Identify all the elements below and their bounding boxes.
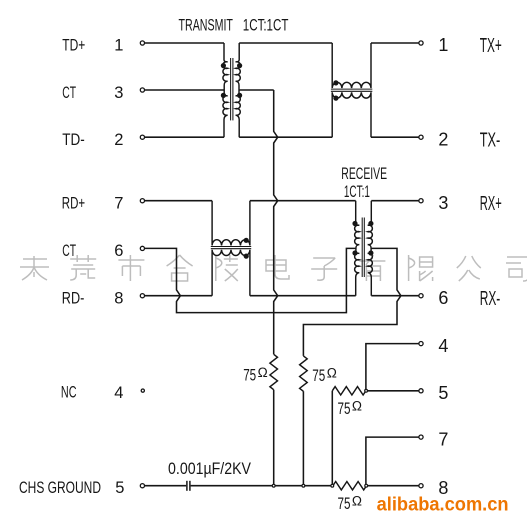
wire capacitor C1 to ground rail nodes [191,485,333,487]
transformer T2 left (primary) winding [355,201,360,296]
grey watermark char 3 [118,255,144,281]
svg-text:1: 1 [438,35,448,55]
T2 polarity dots [352,221,373,256]
wire choke L2 bottom-right to T2 primary bottom (hop over CT rail) [250,295,356,297]
svg-text:RX+: RX+ [480,193,502,215]
svg-text:Ω: Ω [352,494,362,509]
wire resistor R3 left end down to ground rail [331,391,333,486]
svg-text:1CT:1CT: 1CT:1CT [243,16,289,35]
pin 2 left terminal (TD-) [140,135,144,139]
junction R3 leg/R4/ground rail [331,484,334,487]
wire pin4-right down to R3 node [366,344,419,390]
wire pin8-left (RD-) to choke L2 bottom-left (hop over pin6 jog) [145,295,213,297]
junction R1/ground rail [272,484,275,487]
pin 5 left terminal (CHS GROUND) [140,484,144,488]
wire pin2-left to T1 primary bottom [145,136,224,138]
pin 8 right terminal [419,484,423,488]
grey watermark char 11 [506,257,527,281]
wire T2 secondary center tap right and down to resistor R2 top [303,248,401,356]
grey watermark char 1 [20,256,49,280]
pin 1 left terminal (TD+) [140,41,144,45]
svg-text:Ω: Ω [352,399,362,414]
pin 8 left terminal (RD-) [140,294,144,298]
svg-text:5: 5 [115,479,124,497]
wire resistor R1 bottom to ground rail [273,390,275,486]
transformer T1 right (secondary) winding [236,43,241,137]
pin 6 left terminal (CT) [140,246,144,250]
svg-text:1: 1 [114,37,123,55]
svg-text:2: 2 [438,129,448,149]
grey watermark char 2 [70,255,96,280]
svg-text:TX+: TX+ [480,35,502,57]
svg-text:4: 4 [114,384,123,402]
svg-text:Ω: Ω [258,365,268,380]
junction R4/pin7 leg/ground rail [365,484,368,487]
choke L2 top winding [212,201,250,246]
choke L1 bottom winding [332,92,371,137]
junction R2/ground rail [302,484,305,487]
wire pin5-left (CHS GROUND) to capacitor C1 [145,485,187,487]
resistor R1 75ohm vertical [270,354,278,389]
svg-text:3: 3 [114,84,123,102]
svg-text:TRANSMIT: TRANSMIT [179,16,233,35]
grey watermark char 10 [457,256,481,281]
pin 3 left terminal (CT) [140,88,144,92]
choke L1 top winding [332,43,371,88]
grey watermark char 9 [409,255,433,281]
wire T1 secondary center tap to node down-rail [239,89,274,91]
capacitor C1 0.001uF/2KV plates [187,481,190,491]
svg-text:2: 2 [114,131,123,149]
svg-text:7: 7 [114,194,123,212]
pin 7 right terminal [419,435,423,439]
grey watermark char 4 [167,255,193,281]
svg-text:4: 4 [438,336,448,356]
wire T2 secondary top to pin3-right (RX+) [371,200,419,202]
svg-text:1CT:1: 1CT:1 [344,182,370,201]
svg-text:6: 6 [438,288,448,308]
wire down-rail from T1 CT to resistor R1 top [274,90,278,354]
svg-text:0.001µF/2KV: 0.001µF/2KV [168,460,251,478]
wire T1 secondary bottom to choke L1 bottom-left (hop over CT rail) [239,136,332,138]
svg-text:RECEIVE: RECEIVE [341,164,387,183]
wire T2 secondary bottom to pin6-right (RX-) (hop over R2 feed) [371,295,419,297]
wire pin3-left (CT) to T1 primary center tap [145,89,225,91]
resistor R2 75ohm vertical [300,356,308,391]
pin 2 right terminal (TX-) [419,135,423,139]
svg-text:Ω: Ω [327,366,337,381]
wire pin5-right to R3 node [368,390,419,392]
resistor R4 75ohm horizontal [333,482,367,490]
wire T1 secondary top to choke L1 top-left [239,42,332,44]
wire pin7-left (RD+) to choke L2 top-left [145,200,213,202]
wire ground rail right of R4 to pin8-right [366,485,419,487]
transformer T2 (RECEIVE 1CT:1) core [362,218,364,278]
L2 polarity dots [244,238,249,259]
wire choke L1 top-right to pin1-right (TX+) [371,42,419,44]
choke L2 (receive common-mode) core [211,247,251,249]
choke L2 bottom winding [212,250,250,296]
pin 4 right terminal [419,342,423,346]
svg-text:CT: CT [62,84,76,102]
svg-text:6: 6 [114,242,123,260]
wire pin1-left to T1 primary top [145,42,224,44]
choke L1 (transmit common-mode) core [331,89,372,91]
svg-text:75: 75 [338,399,351,418]
junction node R3/pin4/pin5 [365,389,368,392]
svg-text:CHS GROUND: CHS GROUND [19,479,101,497]
svg-text:RD-: RD- [62,289,85,307]
L1 polarity dots [333,80,338,100]
pin 3 right terminal (RX+) [419,199,423,203]
svg-text:8: 8 [114,289,123,307]
svg-text:3: 3 [438,193,448,213]
svg-text:NC: NC [61,383,77,401]
svg-text:75: 75 [243,365,256,384]
transformer T2 right (secondary) winding [368,201,373,296]
grey watermark char 8 [359,255,385,281]
wire pin6-left (CT) jog to T2 primary center tap [145,248,356,312]
pin 7 left terminal (RD+) [140,199,144,203]
transformer T1 left (primary) winding [223,43,228,137]
wire pin7-right down to ground rail node [366,437,419,484]
svg-text:TX-: TX- [480,129,501,151]
wire resistor R2 bottom to ground rail [302,391,304,486]
pin 5 right terminal [419,389,423,393]
transformer T1 (TRANSMIT 1CT:1CT) core [231,58,233,120]
svg-text:alibaba.com.cn: alibaba.com.cn [377,495,509,516]
right pin name labels [480,35,502,310]
svg-text:7: 7 [438,429,448,449]
svg-text:75: 75 [338,494,351,513]
svg-text:RX-: RX- [480,288,501,310]
grey watermark char 5 [216,255,238,281]
pin 1 right terminal (TX+) [419,41,423,45]
svg-text:5: 5 [438,383,448,403]
svg-text:CT: CT [62,242,76,260]
grey watermark char 6 [266,255,289,279]
pin 6 right terminal (RX-) [419,294,423,298]
svg-text:TD+: TD+ [62,37,85,55]
grey watermark char 7 [311,258,337,280]
T1 polarity dots [221,63,242,98]
wire choke L1 bottom-right to pin2-right (TX-) [371,136,419,138]
wire choke L2 top-right to T2 primary top (hop over CT rail) [250,200,356,202]
svg-text:75: 75 [312,366,325,385]
resistor R3 75ohm horizontal [332,387,366,395]
pin 4 NC terminal [141,389,144,392]
svg-text:RD+: RD+ [62,194,85,212]
svg-text:TD-: TD- [62,131,85,149]
